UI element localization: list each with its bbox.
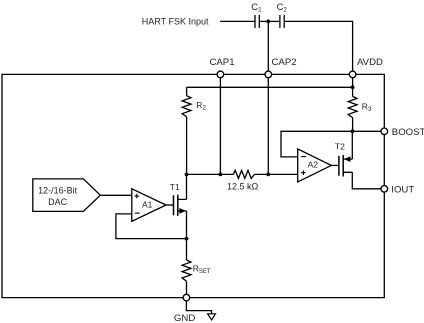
svg-text:HART FSK Input: HART FSK Input [142, 16, 209, 26]
svg-text:12.5 kΩ: 12.5 kΩ [227, 181, 259, 191]
svg-text:T1: T1 [170, 182, 180, 192]
svg-text:12-/16-Bit: 12-/16-Bit [38, 186, 78, 196]
svg-text:BOOST: BOOST [392, 127, 424, 138]
svg-text:AVDD: AVDD [357, 57, 383, 68]
svg-text:DAC: DAC [48, 197, 68, 207]
svg-text:CAP2: CAP2 [272, 57, 297, 68]
svg-text:A1: A1 [142, 200, 153, 210]
svg-text:GND: GND [174, 313, 195, 323]
svg-text:IOUT: IOUT [391, 184, 414, 195]
svg-text:T2: T2 [335, 142, 345, 152]
svg-text:CAP1: CAP1 [209, 57, 234, 68]
svg-text:A2: A2 [308, 160, 319, 170]
